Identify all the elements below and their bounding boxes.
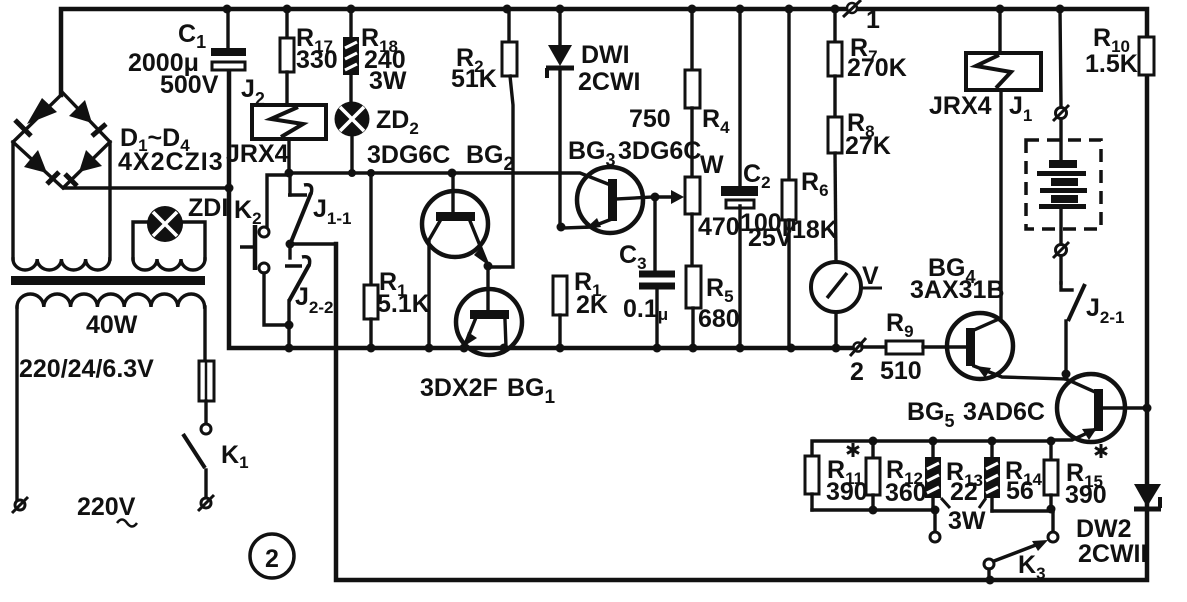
- asterisk mark at R15: [1095, 444, 1107, 458]
- bridge rectifier D1~D4 4X2CZ13: [13, 93, 229, 188]
- junction dots on main bus: [225, 184, 841, 353]
- svg-text:ZDI: ZDI: [188, 194, 228, 222]
- svg-text:390: 390: [1065, 481, 1107, 509]
- svg-text:JRX4: JRX4: [929, 92, 992, 120]
- relay contact J2-2: [285, 244, 334, 348]
- svg-text:2K: 2K: [576, 291, 608, 319]
- svg-text:2CWII: 2CWII: [1078, 540, 1147, 568]
- svg-text:56: 56: [1006, 477, 1034, 505]
- svg-text:360: 360: [885, 479, 927, 507]
- svg-text:750: 750: [629, 105, 671, 133]
- relay contact J2-1: [1061, 283, 1124, 379]
- indicator lamp ZD1: [147, 194, 228, 242]
- indicator lamp ZD2: [335, 102, 419, 174]
- svg-text:1.5K: 1.5K: [1085, 50, 1138, 78]
- resistor R6 18K: [782, 9, 838, 348]
- svg-text:270K: 270K: [847, 54, 907, 82]
- relay coil J1 JRX4: [929, 9, 1041, 125]
- resistor R8 27K: [828, 76, 891, 262]
- transistor BG5 3AD6C: [907, 374, 1152, 442]
- transistor BG2: [367, 141, 514, 348]
- svg-text:4X2CZI3: 4X2CZI3: [118, 148, 224, 176]
- svg-text:DW2: DW2: [1076, 515, 1132, 543]
- svg-text:V: V: [862, 262, 879, 290]
- resistor R4 750: [629, 9, 730, 177]
- svg-text:390: 390: [826, 478, 868, 506]
- resistor R11 390: [805, 456, 868, 510]
- switch K1: [183, 401, 249, 497]
- svg-text:25V: 25V: [748, 224, 793, 252]
- wire: node A (J2 coil bottom to BG3 collector): [285, 169, 609, 185]
- potentiometer W 470: [685, 151, 740, 266]
- svg-text:18K: 18K: [792, 216, 838, 244]
- svg-text:220V: 220V: [77, 493, 136, 521]
- svg-text:5.1K: 5.1K: [377, 290, 430, 318]
- tap under R15: [1048, 511, 1058, 542]
- svg-text:500V: 500V: [160, 71, 219, 99]
- battery pack: [1026, 9, 1101, 283]
- svg-text:220/24/6.3V: 220/24/6.3V: [19, 355, 154, 383]
- svg-text:330: 330: [296, 46, 338, 74]
- resistor R1 2K: [553, 268, 608, 348]
- terminal 220V right: [198, 495, 214, 511]
- svg-text:27K: 27K: [845, 132, 891, 160]
- svg-text:22: 22: [950, 478, 978, 506]
- capacitor C1 2000u 500V: [128, 9, 246, 99]
- wire: resistor bank bottom rail right: [992, 505, 1056, 514]
- label 220V~: [77, 493, 137, 527]
- svg-text:W: W: [700, 151, 724, 179]
- terminal 2 (connector on main bus): [850, 338, 866, 386]
- capacitor C3 0.1u: [619, 241, 675, 348]
- svg-text:2: 2: [265, 545, 279, 573]
- svg-text:3DG6C: 3DG6C: [618, 137, 701, 165]
- resistor R1 5.1K: [364, 173, 430, 348]
- svg-text:1: 1: [866, 6, 880, 34]
- resistor R18 240 3W: [344, 9, 407, 102]
- svg-text:470: 470: [698, 213, 740, 241]
- svg-text:3AX31B: 3AX31B: [910, 276, 1005, 304]
- resistor R15 390: [1044, 441, 1107, 509]
- resistor R14 56 3W: [985, 441, 1043, 511]
- transformer 40W 220/24/6.3V: [11, 142, 205, 500]
- resistor R13 22 3W: [926, 441, 983, 510]
- tap under R13: [930, 510, 940, 542]
- wire: relay hold line to bottom rail: [290, 242, 336, 245]
- transistor BG4 3AX31B: [910, 90, 1066, 379]
- svg-text:3W: 3W: [369, 67, 407, 95]
- svg-text:3DG6C: 3DG6C: [367, 141, 450, 169]
- svg-text:2CWI: 2CWI: [578, 68, 641, 96]
- svg-text:680: 680: [698, 305, 740, 333]
- resistor R5 680: [686, 266, 740, 348]
- relay contact J1-1: [286, 173, 352, 249]
- svg-text:510: 510: [880, 357, 922, 385]
- svg-text:51K: 51K: [451, 65, 497, 93]
- svg-text:3AD6C: 3AD6C: [963, 398, 1045, 426]
- asterisk mark at R11: [847, 443, 859, 457]
- page marker 2: [250, 534, 294, 578]
- label 3W with leader ticks: [941, 498, 986, 535]
- transistor BG3 3DG6C: [563, 137, 701, 271]
- voltmeter V: [811, 262, 882, 348]
- svg-text:3W: 3W: [948, 507, 986, 535]
- junction dots on top bus: [223, 5, 1065, 14]
- wire: C1 negative rail and main emitter bus: [229, 69, 854, 348]
- transistor BG1: [420, 267, 556, 408]
- terminal 1 (connector on top bus): [843, 0, 880, 34]
- resistor R17 330: [280, 9, 338, 105]
- pushbutton K2: [234, 175, 289, 325]
- wire: resistor bank bottom rail left: [812, 506, 940, 515]
- zener diode DW1 2CW1: [546, 9, 641, 232]
- relay coil J2 JRX4: [226, 75, 326, 173]
- resistor R12 360: [866, 441, 927, 510]
- fuse: [199, 361, 214, 401]
- svg-text:2: 2: [850, 358, 864, 386]
- resistor R2 51K: [451, 9, 517, 267]
- svg-text:JRX4: JRX4: [226, 140, 289, 168]
- svg-text:40W: 40W: [86, 311, 138, 339]
- capacitor C2 100u 25V: [721, 9, 797, 348]
- svg-text:DWI: DWI: [581, 41, 630, 69]
- resistor R10 1.5K: [1085, 24, 1154, 78]
- zener diode DW2 2CWII: [1076, 484, 1161, 568]
- resistor R9 510: [862, 309, 947, 385]
- resistor R7 270K: [828, 9, 907, 82]
- terminal 220V left: [12, 497, 28, 513]
- wire: resistor bank top rail: [812, 437, 1056, 457]
- svg-text:3DX2F: 3DX2F: [420, 374, 498, 402]
- switch K3: [984, 540, 1048, 585]
